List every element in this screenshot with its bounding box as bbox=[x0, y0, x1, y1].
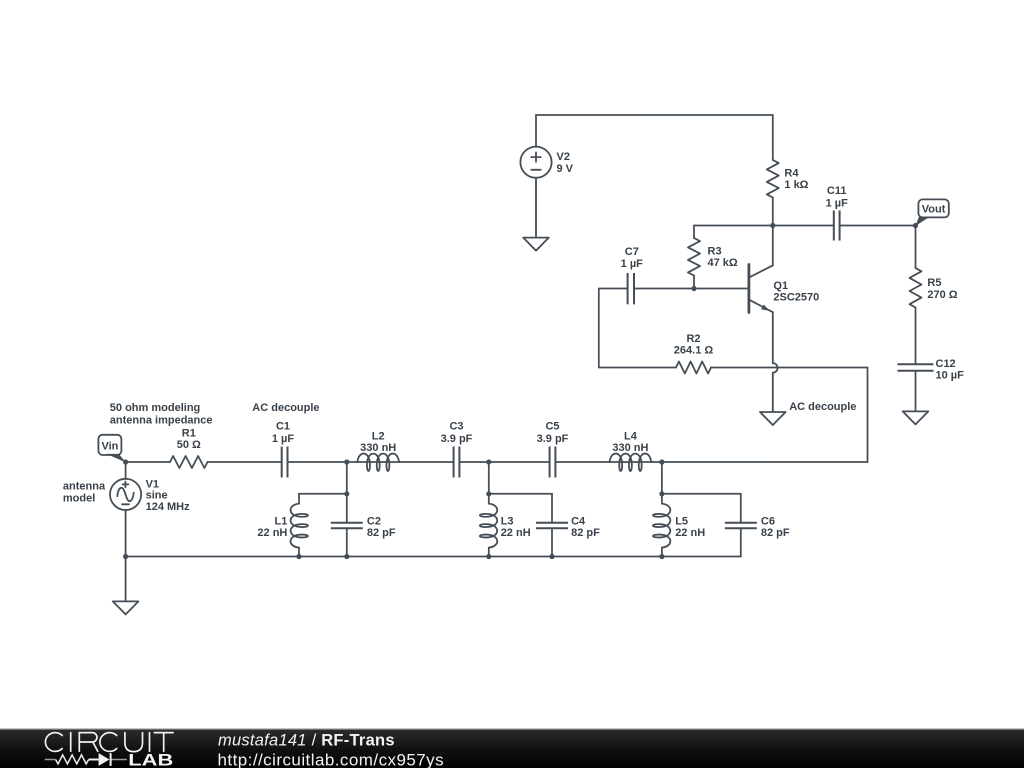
svg-text:1 kΩ: 1 kΩ bbox=[784, 179, 808, 191]
svg-text:22 nH: 22 nH bbox=[675, 527, 705, 539]
svg-text:C5: C5 bbox=[545, 420, 559, 432]
svg-text:22 nH: 22 nH bbox=[257, 527, 287, 539]
svg-text:9 V: 9 V bbox=[557, 163, 574, 175]
svg-text:1 µF: 1 µF bbox=[826, 197, 849, 209]
svg-text:82 pF: 82 pF bbox=[761, 527, 790, 539]
svg-text:50 Ω: 50 Ω bbox=[177, 439, 201, 451]
svg-text:L5: L5 bbox=[675, 515, 688, 527]
svg-text:1 µF: 1 µF bbox=[621, 258, 644, 270]
svg-text:C7: C7 bbox=[625, 246, 639, 258]
svg-text:3.9 pF: 3.9 pF bbox=[441, 433, 473, 445]
svg-text:C4: C4 bbox=[571, 515, 586, 527]
svg-text:124 MHz: 124 MHz bbox=[146, 501, 191, 513]
svg-text:antenna impedance: antenna impedance bbox=[110, 415, 213, 427]
svg-text:L2: L2 bbox=[372, 431, 385, 443]
svg-text:C11: C11 bbox=[827, 185, 847, 197]
svg-text:1 µF: 1 µF bbox=[272, 433, 295, 445]
svg-text:330 nH: 330 nH bbox=[612, 442, 648, 454]
svg-text:sine: sine bbox=[146, 490, 168, 502]
svg-text:Vout: Vout bbox=[922, 203, 946, 215]
svg-text:V2: V2 bbox=[557, 151, 570, 163]
svg-text:AC decouple: AC decouple bbox=[789, 401, 856, 413]
svg-text:82 pF: 82 pF bbox=[571, 527, 600, 539]
svg-text:Q1: Q1 bbox=[773, 280, 788, 292]
svg-text:C3: C3 bbox=[449, 420, 463, 432]
svg-text:2SC2570: 2SC2570 bbox=[773, 292, 819, 304]
svg-text:AC decouple: AC decouple bbox=[252, 402, 319, 414]
svg-text:mustafa141 / RF-Trans: mustafa141 / RF-Trans bbox=[218, 732, 395, 750]
svg-text:50 ohm modeling: 50 ohm modeling bbox=[110, 402, 200, 414]
svg-text:3.9 pF: 3.9 pF bbox=[537, 433, 569, 445]
svg-text:82 pF: 82 pF bbox=[367, 527, 396, 539]
svg-text:10 µF: 10 µF bbox=[936, 370, 965, 382]
svg-text:22 nH: 22 nH bbox=[501, 527, 531, 539]
svg-text:L3: L3 bbox=[501, 515, 514, 527]
svg-text:model: model bbox=[63, 492, 95, 504]
svg-text:264.1 Ω: 264.1 Ω bbox=[674, 345, 714, 357]
svg-text:L1: L1 bbox=[275, 515, 288, 527]
svg-text:R3: R3 bbox=[708, 246, 722, 258]
svg-text:330 nH: 330 nH bbox=[360, 442, 396, 454]
svg-text:270 Ω: 270 Ω bbox=[927, 289, 957, 301]
svg-text:http://circuitlab.com/cx957ys: http://circuitlab.com/cx957ys bbox=[218, 750, 445, 768]
svg-text:R1: R1 bbox=[182, 428, 196, 440]
svg-text:C2: C2 bbox=[367, 515, 381, 527]
svg-text:V1: V1 bbox=[146, 479, 159, 491]
svg-text:R2: R2 bbox=[686, 333, 700, 345]
svg-text:L4: L4 bbox=[624, 431, 638, 443]
svg-text:C6: C6 bbox=[761, 515, 775, 527]
svg-text:47 kΩ: 47 kΩ bbox=[708, 257, 738, 269]
svg-text:R4: R4 bbox=[784, 168, 799, 180]
svg-text:antenna: antenna bbox=[63, 480, 106, 492]
svg-text:Vin: Vin bbox=[101, 441, 118, 453]
svg-text:C1: C1 bbox=[276, 420, 290, 432]
svg-text:R5: R5 bbox=[927, 277, 941, 289]
svg-text:LAB: LAB bbox=[128, 751, 173, 768]
svg-text:C12: C12 bbox=[936, 358, 956, 370]
